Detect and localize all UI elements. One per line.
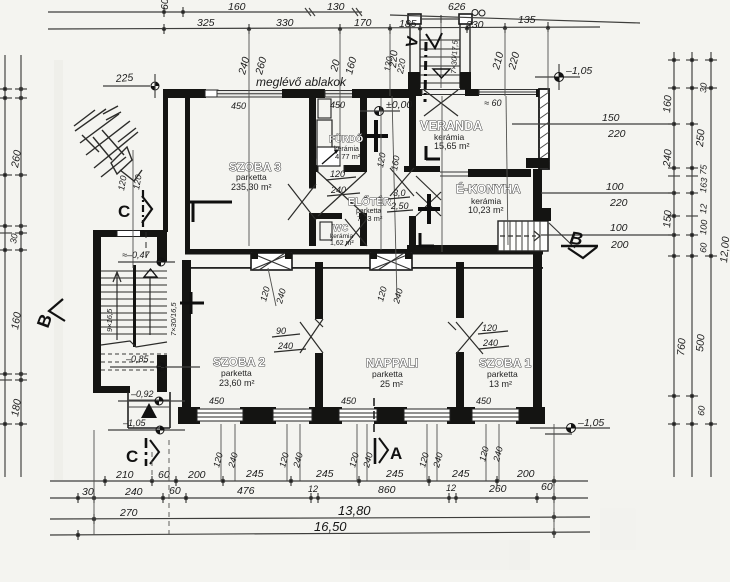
- entry stairs section dashdot: [425, 42, 426, 102]
- bottom wall piers: [178, 407, 200, 424]
- svg-text:VERANDA: VERANDA: [420, 119, 483, 133]
- B section marker left: [33, 299, 65, 330]
- veranda top wall line: [408, 89, 422, 96]
- cross mark szoba2 wall: [180, 292, 204, 314]
- konyha bottom wall: [407, 245, 500, 252]
- bottom connector x152 dashed: [151, 452, 153, 481]
- svg-text:250: 250: [694, 129, 708, 149]
- annex bottom wall: [93, 386, 130, 393]
- level -0,47 annex top: [118, 250, 175, 266]
- veranda window band: [479, 90, 539, 95]
- dim line T1: [48, 11, 362, 13]
- svg-text:ELŐTÉR: ELŐTÉR: [348, 195, 392, 208]
- svg-text:–0,85: –0,85: [125, 354, 150, 364]
- svg-text:160: 160: [228, 1, 246, 13]
- svg-text:4,77 m²: 4,77 m²: [335, 152, 361, 161]
- furdo shower box w/ arrow: [317, 147, 340, 166]
- svg-text:1,62 m²: 1,62 m²: [330, 240, 354, 247]
- bottom window 2: [273, 409, 312, 421]
- svg-text:245: 245: [451, 468, 470, 480]
- L mark konyha: [420, 233, 434, 247]
- porch outline: [128, 392, 170, 428]
- svg-text:–1,05: –1,05: [122, 418, 147, 428]
- svg-text:330: 330: [276, 17, 294, 29]
- right horizontal dim 100/200: [541, 234, 674, 236]
- wall top pier 2: [352, 89, 414, 98]
- svg-text:23,60 m²: 23,60 m²: [219, 378, 255, 388]
- svg-text:130: 130: [327, 1, 345, 13]
- wall top outer (SZOBA3 section): [163, 89, 206, 98]
- window lintel box top wall: [205, 90, 218, 97]
- chimney box 2 with X: [370, 253, 412, 270]
- svg-text:30: 30: [82, 486, 94, 498]
- left dim line 1: [4, 55, 6, 477]
- svg-text:9×16,5: 9×16,5: [105, 308, 114, 332]
- right dim col B: [691, 52, 693, 477]
- svg-text:100: 100: [606, 181, 624, 193]
- svg-text:30: 30: [8, 233, 20, 245]
- level marker -1,05 top right: [535, 64, 592, 90]
- porch up arrow: [141, 403, 157, 418]
- svg-text:A: A: [390, 444, 402, 463]
- svg-text:60: 60: [696, 405, 707, 416]
- bottom connector x554: [553, 424, 555, 535]
- extension line x505: [504, 28, 506, 96]
- annex window centerline: [132, 150, 134, 268]
- bottom connector x169 dashed: [168, 440, 170, 535]
- svg-text:FÜRDŐ: FÜRDŐ: [329, 133, 363, 145]
- svg-text:450: 450: [330, 100, 345, 110]
- bottom window 4: [404, 409, 450, 421]
- svg-text:parketta: parketta: [236, 172, 267, 182]
- C section marker bottom: [126, 438, 159, 466]
- svg-text:–1,05: –1,05: [577, 417, 604, 429]
- stairwell treads: [101, 271, 167, 334]
- L1 ticks: [103, 476, 555, 486]
- svg-text:160: 160: [661, 95, 674, 114]
- extension pair window5: [486, 424, 499, 481]
- svg-text:760: 760: [675, 338, 688, 357]
- svg-text:3,0: 3,0: [393, 188, 406, 198]
- svg-text:≈ 60: ≈ 60: [484, 98, 501, 108]
- door X wc: [345, 219, 367, 246]
- svg-text:210: 210: [115, 469, 134, 481]
- bottom window 5: [472, 409, 519, 421]
- svg-text:12: 12: [698, 203, 709, 214]
- szoba2 left wall lower: [182, 260, 191, 412]
- wc right wall: [360, 213, 367, 246]
- svg-text:240: 240: [661, 149, 675, 169]
- svg-text:13,80: 13,80: [338, 503, 371, 518]
- back stairs arrow: [500, 231, 540, 241]
- svg-text:É-KONYHA: É-KONYHA: [456, 181, 521, 196]
- svg-text:270: 270: [119, 507, 138, 519]
- B section marker right: [549, 223, 598, 258]
- right wall jog: [526, 158, 549, 168]
- divider wall upper line: [185, 249, 543, 255]
- paper streaks: [54, 60, 720, 570]
- svg-text:220: 220: [607, 128, 626, 140]
- cross section jog mark 2: [418, 194, 440, 224]
- svg-text:30: 30: [698, 82, 709, 93]
- svg-text:12: 12: [446, 483, 456, 493]
- back stairs box: [498, 208, 551, 251]
- cross section jog mark 1: [365, 120, 388, 152]
- veranda right wall w/ hatch: [539, 89, 549, 169]
- level -1,05 porch: [108, 418, 185, 434]
- extension pair window2: [287, 424, 300, 481]
- svg-text:100: 100: [610, 222, 628, 234]
- stair lower dashed treads: [101, 354, 167, 370]
- window band top (FURDO window): [325, 91, 353, 98]
- veranda top pier: [465, 89, 479, 96]
- svg-text:90: 90: [276, 326, 286, 336]
- svg-text:C: C: [126, 447, 138, 466]
- svg-text:245: 245: [245, 468, 264, 480]
- level -0,92: [118, 389, 185, 405]
- svg-text:16,50: 16,50: [314, 519, 347, 534]
- furdo bottom wall: [309, 165, 367, 172]
- svg-text:626: 626: [448, 1, 466, 13]
- svg-text:476: 476: [237, 485, 255, 497]
- divider wall lower line: [185, 267, 543, 269]
- svg-text:163: 163: [698, 177, 709, 193]
- left dim line 2: [20, 55, 22, 477]
- svg-text:225: 225: [114, 72, 133, 85]
- annex lower right wall: [157, 355, 167, 392]
- section line C dashed: [145, 232, 147, 260]
- annex top wall: [93, 230, 118, 237]
- annex left wall: [93, 230, 101, 392]
- svg-text:60: 60: [159, 0, 171, 10]
- svg-text:220: 220: [609, 197, 628, 209]
- extension line x249: [248, 29, 250, 246]
- door marks nappali-szoba1: [448, 322, 483, 354]
- L mark veranda left: [426, 146, 440, 160]
- left wall inner line: [185, 96, 190, 250]
- door marks szoba2-nappali: [300, 319, 323, 353]
- svg-text:450: 450: [231, 101, 246, 111]
- svg-text:450: 450: [476, 396, 491, 406]
- annex right upper wall stub: [157, 237, 167, 262]
- central vertical wall (eloter/veranda-konyha): [409, 94, 416, 168]
- right dim col A: [673, 52, 675, 477]
- svg-text:240: 240: [277, 341, 293, 351]
- stairs rail dim: [420, 15, 460, 23]
- door size hw 120/240 szoba3: [326, 169, 360, 196]
- konyha door swing small: [416, 176, 441, 200]
- veranda entry door band: [422, 90, 467, 95]
- svg-text:≈–0,47: ≈–0,47: [122, 250, 150, 260]
- konyha top wall: [468, 169, 531, 177]
- svg-text:–0,92: –0,92: [130, 389, 154, 399]
- svg-text:NAPPALI: NAPPALI: [366, 356, 418, 370]
- door size hw 90/240 szoba2: [272, 326, 306, 352]
- wc top wall: [309, 213, 367, 219]
- bottom window 1: [197, 409, 243, 421]
- svg-text:60: 60: [698, 242, 709, 253]
- extension line x340: [339, 29, 341, 165]
- door X eloter-konyha: [416, 192, 441, 216]
- entry stairs treads: [420, 40, 460, 83]
- svg-text:60: 60: [169, 485, 181, 497]
- extension pair window4: [427, 424, 437, 481]
- veranda corner block: [536, 89, 549, 97]
- svg-text:7,73 m²: 7,73 m²: [357, 214, 383, 223]
- T mark szoba3: [190, 202, 232, 222]
- bottom dim line L3: [50, 517, 590, 519]
- bottom dim line L2: [50, 497, 588, 499]
- A section marker top (rotated): [401, 34, 420, 49]
- right dim col C: [710, 52, 712, 477]
- level -1,05 bottom right: [530, 417, 610, 434]
- svg-text:185: 185: [399, 18, 417, 30]
- svg-text:WC: WC: [333, 223, 349, 233]
- svg-text:7×30/16,5: 7×30/16,5: [169, 302, 178, 336]
- svg-text:450: 450: [209, 396, 224, 406]
- svg-text:13 m²: 13 m²: [489, 379, 512, 389]
- stair cut zigzag: [101, 341, 167, 347]
- chimney box 1 with X: [251, 253, 292, 270]
- stair direction arrow left flight: [113, 272, 121, 340]
- dim line T1 right sloped: [390, 15, 640, 23]
- dim line T2: [48, 27, 600, 29]
- T2 ticks: [162, 22, 549, 34]
- T1 loop ticks: [472, 10, 478, 16]
- svg-text:230: 230: [465, 19, 484, 31]
- porch steps: [128, 400, 170, 407]
- svg-text:240: 240: [124, 486, 143, 498]
- window band top (SZOBA3 window): [217, 91, 283, 98]
- svg-text:860: 860: [378, 484, 396, 496]
- door X szoba3-eloter: [288, 184, 316, 220]
- right ticks: [668, 58, 717, 425]
- svg-text:170: 170: [354, 17, 372, 29]
- left ticks: [0, 87, 27, 425]
- svg-text:100: 100: [698, 219, 709, 235]
- svg-text:15,65 m²: 15,65 m²: [434, 141, 470, 151]
- svg-text:60: 60: [541, 481, 553, 493]
- T1 tick 2: [181, 7, 184, 17]
- A top chevron pointing down: [426, 33, 442, 48]
- svg-text:SZOBA 1: SZOBA 1: [479, 356, 531, 370]
- svg-text:kerámia: kerámia: [330, 233, 354, 240]
- stair direction arrow right flight: [144, 269, 157, 335]
- entry stairs rails: [410, 16, 470, 88]
- svg-text:parketta: parketta: [487, 369, 518, 379]
- right horizontal dim 150/220: [512, 123, 674, 125]
- hw 3,0 / 2,50 eloter: [441, 96, 443, 252]
- svg-text:meglévő ablakok: meglévő ablakok: [256, 75, 347, 89]
- hw pair under chimney1: [268, 268, 276, 306]
- svg-text:200: 200: [516, 468, 535, 480]
- svg-text:±0,00: ±0,00: [386, 99, 412, 111]
- svg-text:150: 150: [661, 210, 674, 229]
- svg-text:240: 240: [482, 338, 498, 348]
- svg-text:245: 245: [315, 468, 334, 480]
- svg-text:200: 200: [610, 239, 629, 251]
- furdo washbasin: [318, 99, 331, 118]
- extension line x548: [547, 28, 549, 92]
- stairs thin centerline: [440, 23, 442, 88]
- nappali/szoba1 wall: [456, 262, 464, 318]
- bathtub furdo: [317, 120, 332, 158]
- svg-text:240: 240: [330, 185, 346, 195]
- svg-text:235,30 m²: 235,30 m²: [231, 182, 272, 192]
- bottom connector x94: [93, 430, 95, 535]
- svg-text:60: 60: [158, 469, 170, 481]
- svg-text:10,23 m²: 10,23 m²: [468, 205, 504, 215]
- szoba2/nappali wall: [315, 262, 323, 319]
- svg-text:120: 120: [482, 323, 497, 333]
- svg-text:12,00: 12,00: [718, 236, 730, 263]
- C section marker top left: [118, 190, 152, 231]
- bottom window 3: [339, 409, 377, 421]
- svg-text:135: 135: [518, 14, 536, 26]
- A section marker bottom: [375, 438, 402, 464]
- svg-text:120: 120: [330, 169, 345, 179]
- svg-text:245: 245: [385, 468, 404, 480]
- rail top boxes: [408, 14, 421, 24]
- svg-text:2,50: 2,50: [390, 201, 409, 211]
- entry stairs down arrow (open): [433, 69, 450, 78]
- svg-text:200: 200: [187, 469, 206, 481]
- svg-text:–1,05: –1,05: [565, 65, 592, 77]
- veranda window X: [424, 90, 458, 116]
- right horizontal dim 100/220: [541, 192, 674, 194]
- T1 tick 1: [162, 7, 165, 17]
- szoba3 right wall: [309, 96, 316, 246]
- back stairs step wall: [534, 208, 551, 221]
- stairwell center divider: [133, 265, 136, 347]
- level marker +-0,00 veranda: [360, 99, 412, 116]
- svg-text:150: 150: [602, 112, 620, 124]
- extension pair window3: [357, 424, 367, 481]
- svg-text:12: 12: [308, 484, 318, 494]
- svg-text:7×30/17,5: 7×30/17,5: [449, 39, 460, 74]
- extension pair window1: [221, 424, 235, 481]
- svg-text:SZOBA 2: SZOBA 2: [213, 355, 265, 369]
- level -0,85: [110, 354, 200, 371]
- svg-text:75: 75: [698, 163, 709, 175]
- svg-text:325: 325: [197, 17, 215, 29]
- rail bottom wall stubs: [408, 72, 420, 89]
- wc toilet: [320, 222, 332, 240]
- L2 ticks: [76, 493, 555, 503]
- furdo right wall: [360, 96, 367, 172]
- svg-text:450: 450: [341, 396, 356, 406]
- svg-text:25 m²: 25 m²: [380, 379, 403, 389]
- bottom dim line L4: [50, 532, 590, 535]
- veranda bottom wall: [404, 166, 440, 172]
- svg-text:260: 260: [488, 483, 507, 495]
- door size hw 120/240 szoba1: [478, 323, 509, 349]
- door X eloter-veranda: [390, 168, 414, 196]
- section line A dashed: [373, 398, 375, 437]
- svg-text:parketta: parketta: [372, 369, 403, 379]
- svg-text:C: C: [118, 202, 130, 221]
- pencil sketch scribbles top left: [74, 106, 142, 181]
- T1 tick slashes: [305, 8, 362, 16]
- svg-text:500: 500: [694, 334, 707, 353]
- door X furdo-eloter: [318, 172, 366, 216]
- left wall outer line: [163, 89, 168, 232]
- bottom dim line L1: [50, 480, 588, 482]
- wall top pier: [282, 89, 325, 98]
- lower right wall: [533, 169, 542, 407]
- svg-text:parketta: parketta: [221, 368, 252, 378]
- extension line x390: [389, 29, 391, 96]
